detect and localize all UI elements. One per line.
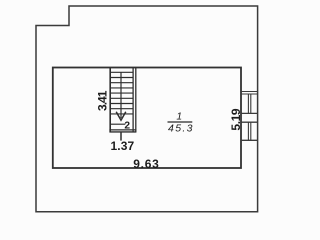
staircase right stringer wall outer line xyxy=(135,68,137,132)
svg-text:9.63: 9.63 xyxy=(133,157,159,171)
window A double vertical glazing lines xyxy=(247,94,249,113)
stair arrowhead xyxy=(116,112,126,120)
svg-text:2: 2 xyxy=(124,121,130,132)
staircase bottom wall double line xyxy=(109,129,136,131)
window B top sill xyxy=(241,121,258,123)
room 1 walls (inner rectangle) xyxy=(53,68,241,169)
svg-text:5.19: 5.19 xyxy=(229,108,243,130)
dimension tick below stair xyxy=(120,132,122,140)
fraction bar xyxy=(168,121,193,123)
window wall strip: upper sill inner line xyxy=(241,93,258,95)
stair landing edge line xyxy=(110,123,125,125)
stair direction arrow shaft xyxy=(120,72,122,118)
window B bottom sill xyxy=(241,139,258,141)
stair treads xyxy=(110,72,133,114)
staircase left stringer wall xyxy=(109,68,111,132)
svg-text:3.41: 3.41 xyxy=(96,90,110,111)
svg-text:45.3: 45.3 xyxy=(168,123,194,135)
window wall strip: upper sill double line xyxy=(241,91,258,93)
staircase right stringer wall inner line xyxy=(132,68,134,132)
svg-text:1.37: 1.37 xyxy=(111,139,135,153)
outer apartment boundary wall with top-left notch xyxy=(36,6,258,212)
window B double vertical glazing lines xyxy=(247,122,249,140)
svg-text:1: 1 xyxy=(176,112,182,123)
window A bottom sill xyxy=(241,112,258,114)
